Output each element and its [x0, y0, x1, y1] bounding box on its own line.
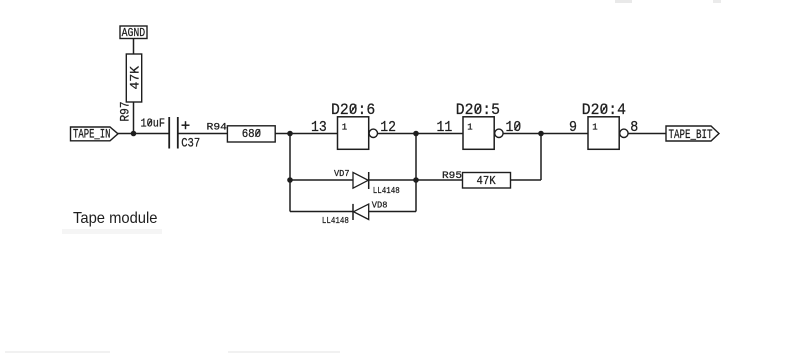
svg-text:VD7: VD7 [334, 168, 350, 179]
svg-text:1: 1 [467, 122, 472, 132]
svg-text:VD8: VD8 [372, 199, 388, 210]
junction VD7 anode node [287, 177, 293, 183]
ground symbol AGND [120, 26, 147, 40]
wire node A to VD7 anode [290, 179, 353, 181]
resistor R97 [126, 54, 142, 102]
svg-text:1: 1 [342, 122, 347, 132]
svg-text:10uF: 10uF [141, 117, 166, 130]
junction node TAPE_IN/R97 [131, 131, 137, 137]
junction node B [413, 131, 419, 137]
inverter D20:5 [463, 117, 503, 150]
inverter D20:6 [338, 117, 378, 150]
svg-text:47K: 47K [477, 175, 496, 188]
wire R97 top to AGND [133, 38, 135, 54]
inverter D20:4 [588, 117, 628, 150]
svg-text:47K: 47K [128, 66, 143, 90]
svg-text:TAPE_BIT: TAPE_BIT [669, 127, 713, 142]
wire node A down to VD8 row [289, 134, 291, 212]
svg-text:AGND: AGND [122, 26, 146, 40]
junction VD7 cathode node [413, 177, 419, 183]
diode VD7 [353, 172, 369, 189]
wire R97 bottom to node [133, 102, 135, 134]
resistor R94 [227, 126, 275, 142]
resistor R95 [463, 173, 511, 189]
wire R94 to D20:6 input [275, 133, 337, 135]
C37 value 10uF [141, 117, 166, 130]
svg-text:11: 11 [437, 119, 453, 136]
wire R95 to node C riser [511, 134, 542, 181]
svg-text:13: 13 [311, 119, 327, 136]
wire VD7 cathode to node B [369, 179, 416, 181]
junction node C [538, 131, 544, 137]
svg-text:LL4148: LL4148 [322, 216, 349, 226]
wire VD7 node to R95 [416, 179, 463, 181]
wire D20:6 output to D20:5 input [377, 133, 463, 135]
capacitor C37 [169, 117, 189, 149]
pin 10 label [506, 119, 522, 136]
svg-text:R97: R97 [119, 102, 133, 122]
svg-text:Tape module: Tape module [73, 210, 158, 227]
svg-text:R94: R94 [207, 122, 228, 134]
wire VD8 anode row right [369, 211, 416, 213]
wire node B down to VD8 row [415, 134, 417, 212]
svg-text:R95: R95 [442, 170, 462, 182]
wire TAPE_IN to C37 [118, 133, 169, 135]
svg-text:LL4148: LL4148 [373, 186, 400, 196]
svg-text:TAPE_IN: TAPE_IN [73, 127, 111, 142]
D20:4 designator [582, 101, 626, 119]
wire D20:4 output to TAPE_BIT [628, 133, 666, 135]
svg-text:680: 680 [242, 127, 262, 141]
svg-text:1: 1 [592, 122, 597, 132]
diode VD8 [353, 204, 369, 220]
svg-text:C37: C37 [181, 136, 200, 150]
net label TAPE_BIT [666, 126, 719, 142]
junction node A [287, 131, 293, 137]
net label TAPE_IN [71, 127, 119, 142]
svg-text:9: 9 [569, 119, 577, 136]
wire C37 to R94 [178, 133, 228, 135]
D20:5 designator [456, 101, 500, 119]
wire VD8 cathode row left [290, 211, 353, 213]
D20:6 designator [331, 101, 375, 119]
wire D20:5 output to D20:4 input [503, 133, 588, 135]
